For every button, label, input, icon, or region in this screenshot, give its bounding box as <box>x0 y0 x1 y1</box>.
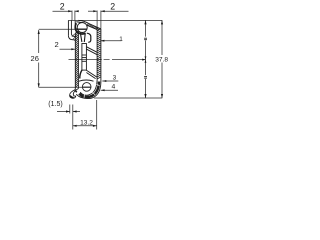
svg-text:2: 2 <box>54 40 58 49</box>
left 2-dim arrows <box>68 10 72 12</box>
wire 1.5-dim extension lines <box>69 105 71 114</box>
hatching top diagonals <box>87 24 99 31</box>
wire left 2-dim extension lines <box>71 11 73 21</box>
retainer neck below top ball <box>80 33 82 42</box>
top ball lower race <box>75 31 79 33</box>
26 dim arrows <box>38 30 40 34</box>
rail mid hatched wall verticals <box>74 33 76 90</box>
wire dimension line x=162 (37.8) <box>161 20 163 55</box>
top-right curl over ball (outer arc) <box>78 20 89 23</box>
wire 13.2 dimension line <box>73 125 97 127</box>
dim x=162 arrows <box>161 20 163 24</box>
bottom-right curl inner <box>80 81 97 96</box>
strut to bottom-right <box>86 70 97 77</box>
svg-text:37.8: 37.8 <box>155 56 168 63</box>
wire leader label 2 mid-left <box>60 48 76 50</box>
wire right 2-dim line <box>88 10 97 12</box>
13.2 dim arrows <box>73 125 77 127</box>
wire 26 top extension line <box>39 28 87 30</box>
bottom ball upper race <box>79 80 94 81</box>
wire 26 extension through top ball <box>77 28 87 30</box>
svg-text:3: 3 <box>113 74 117 81</box>
retainer lower-left descent <box>80 70 82 79</box>
bottom-left curl outer <box>70 90 76 99</box>
svg-text:1: 1 <box>119 36 123 43</box>
top ball left lip <box>75 21 77 30</box>
1.5 dim arrows <box>66 110 70 112</box>
svg-text:4: 4 <box>112 84 116 91</box>
rail left wall lower curls <box>68 36 75 40</box>
arrowheads <box>38 10 164 127</box>
top ball lower-left race (thick C) <box>75 23 85 34</box>
wire leader label 4 <box>101 89 118 91</box>
upper diagonal band to right wall <box>87 47 98 53</box>
retainer web rectangle <box>82 44 87 71</box>
hook right of top ball <box>87 33 91 42</box>
wire 26 dimension line x=38.7 <box>38 30 40 53</box>
leader arrows 1,2,3,4 <box>100 40 104 42</box>
hatching bottom-left hook <box>70 90 77 97</box>
bottom-right curl dark band <box>79 82 99 97</box>
top-right curl over ball (inner arc) <box>76 22 86 26</box>
rail right wall verticals <box>96 30 98 81</box>
hatching right wall <box>97 29 101 79</box>
equality marks on x=145.5 <box>144 38 147 78</box>
rail top diagonals to right wall <box>89 24 101 29</box>
hatching left junction corner <box>72 34 78 41</box>
bottom-left curl inner <box>73 89 78 97</box>
wire right 2-dim extension lines <box>96 11 98 30</box>
ball top <box>77 23 87 33</box>
svg-text:2: 2 <box>60 2 65 12</box>
wire 26 bottom extension line <box>39 86 91 88</box>
wire leader label 1 <box>100 40 121 42</box>
wire 1.5-dim line <box>57 111 70 113</box>
wire 13.2 extension line right <box>96 100 98 130</box>
wire 26 extension through bottom ball <box>83 86 91 88</box>
wire dimension line x=145.5 (equal halves) <box>145 20 147 36</box>
svg-text:13.2: 13.2 <box>80 120 93 127</box>
svg-text:2: 2 <box>110 1 115 11</box>
svg-text:(1.5): (1.5) <box>48 101 62 108</box>
wire left 2-dim line <box>53 10 73 12</box>
bottom-right curl outer <box>76 82 101 99</box>
dim x=145.5 arrows <box>144 20 146 24</box>
hatching mid-left wall <box>75 31 78 88</box>
white streaks in bottom dark band <box>84 85 100 98</box>
svg-text:26: 26 <box>31 54 39 63</box>
ball bottom <box>82 83 91 92</box>
wire top extension line y=20.4 <box>68 19 162 21</box>
wire leader label 3 <box>102 80 118 82</box>
wire bottom extension line y=98 <box>94 97 162 99</box>
node centerline horizontal y=59.6 <box>69 59 146 61</box>
rail outer-left wall verticals <box>67 20 69 35</box>
right 2-dim arrows <box>93 10 97 12</box>
